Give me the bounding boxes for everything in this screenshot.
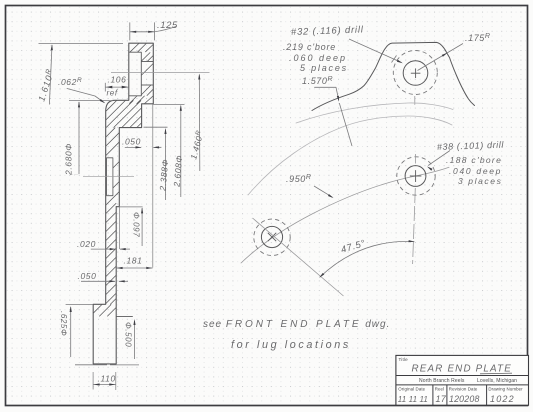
groove wall hatch ticks: [113, 162, 119, 168]
dimension .106 ref: [104, 83, 106, 92]
screw hole #32 center cross: [411, 72, 421, 74]
screw hole #38 boss circle (dashed): [397, 157, 435, 195]
dimension .181: [116, 267, 152, 269]
svg-text:.050: .050: [78, 271, 97, 281]
centerline tick above #38 hole: [415, 154, 417, 164]
inner groove window in web: [107, 158, 113, 196]
title block row lines: [396, 375, 529, 377]
svg-text:3 places: 3 places: [458, 176, 502, 186]
horizontal centerline of section: [83, 176, 134, 178]
dimension .050 flange step: [125, 146, 141, 148]
svg-text:Φ.097: Φ.097: [132, 212, 141, 237]
dimension .062R leader: [67, 89, 104, 103]
dimension .500 dia: [134, 321, 136, 359]
svg-text:.625Φ: .625Φ: [59, 311, 68, 336]
svg-text:2.680Φ: 2.680Φ: [64, 143, 74, 176]
centerline below #38 hole: [413, 188, 416, 264]
section outline: plate cross-section profile: [93, 43, 153, 364]
svg-text:Reel: Reel: [435, 386, 444, 391]
svg-text:.188 c'bore: .188 c'bore: [446, 155, 502, 165]
svg-text:5 places: 5 places: [300, 63, 348, 73]
dimension .625 dia: [70, 307, 72, 357]
extension line rim top (1.610R ref): [39, 43, 124, 45]
extension line flange underside right (2.608 ref): [153, 103, 185, 105]
title block column lines: [432, 385, 434, 405]
svg-text:Lovells, Michigan: Lovells, Michigan: [477, 378, 517, 384]
dimension 1.460R: [198, 75, 201, 172]
leader #32 drill note: [349, 39, 402, 63]
extension line body top left (2.680 ref): [69, 100, 113, 102]
svg-text:.219 c'bore: .219 c'bore: [283, 42, 336, 52]
svg-text:.040 deep: .040 deep: [449, 166, 502, 176]
svg-text:120208: 120208: [449, 394, 480, 404]
extension line step right (2.388 ref): [144, 126, 168, 128]
svg-text:ref: ref: [107, 89, 118, 98]
svg-text:.181: .181: [124, 256, 143, 266]
screw hole #38 counterbore circle: [405, 166, 426, 187]
svg-text:.020: .020: [77, 239, 96, 249]
leader .950R: [314, 186, 332, 197]
extension line groove step right (.097 ref): [116, 206, 142, 208]
svg-text:.050: .050: [122, 137, 141, 147]
radial line 1.570R: [339, 103, 352, 146]
rim slot (counterbore recess): [129, 52, 141, 96]
title block outer box: [396, 355, 529, 405]
svg-text:Drawing Number: Drawing Number: [488, 386, 523, 391]
svg-text:1022: 1022: [490, 394, 515, 404]
leader #38 drill note: [428, 151, 450, 166]
rim hole step lines: [141, 61, 153, 63]
screw hole #38 center cross: [410, 175, 422, 177]
dimension 2.608 dia: [180, 106, 182, 197]
extension line hub step left (.625 ref): [66, 304, 93, 306]
lug hole (third, X) counterbore circle: [261, 226, 282, 247]
dimension 1.610R: [49, 45, 52, 105]
extension lines .110: [92, 372, 94, 390]
dimension .020: [91, 248, 116, 250]
radial centerline through X hole: [253, 218, 344, 296]
section hatching: [94, 44, 154, 317]
svg-text:.110: .110: [98, 374, 116, 384]
screw hole #32 boss circle (dashed): [393, 51, 437, 95]
dimension .125 rim width: [129, 22, 131, 40]
dimension .097 dia: [141, 208, 143, 246]
dimension .050 web: [81, 280, 115, 282]
screw hole #32 counterbore circle: [403, 61, 428, 86]
leader 1.570R: [315, 87, 339, 100]
svg-text:Φ.500: Φ.500: [124, 322, 133, 347]
svg-text:.106: .106: [108, 75, 127, 85]
dimension 47.5 degree arc: [320, 241, 414, 277]
lug hole X center mark: [268, 233, 276, 241]
svg-text:11 11 11: 11 11 11: [398, 395, 428, 404]
dimension 2.388 dia: [165, 130, 167, 201]
bolt circle arc .950R: [241, 167, 449, 263]
dimension 2.680 dia: [78, 102, 80, 174]
dimension .110: [93, 384, 116, 386]
lug hole boss circle (dashed): [254, 219, 290, 255]
leader .175R: [418, 44, 464, 71]
svg-text:17: 17: [436, 394, 447, 404]
faint sweep arc upper: [296, 103, 453, 123]
svg-text:.125: .125: [157, 20, 178, 31]
faint sweep arc lower: [248, 116, 452, 195]
svg-text:REAR END PLATE: REAR END PLATE: [412, 364, 512, 375]
hub bottom baseline extended: [75, 364, 107, 366]
plate outer edge with lug: [312, 42, 475, 110]
svg-text:.060 deep: .060 deep: [289, 53, 347, 63]
extension line flange OD down: [152, 105, 154, 268]
svg-text:Title: Title: [399, 357, 409, 362]
extension line web upper edge down (.020 ref): [118, 207, 120, 249]
svg-text:Revision Date: Revision Date: [449, 386, 478, 391]
centerline tick below #32 hole: [414, 96, 416, 105]
extension line screw hole center height: [111, 72, 210, 74]
svg-text:Original Date: Original Date: [398, 386, 425, 391]
svg-text:see FRONT END PLATE dwg.: see FRONT END PLATE dwg.: [203, 319, 390, 330]
svg-text:for lug locations: for lug locations: [231, 339, 351, 351]
extension line hub bottom right (.500 ref): [116, 315, 133, 317]
svg-text:North Branch Reels: North Branch Reels: [419, 378, 465, 384]
